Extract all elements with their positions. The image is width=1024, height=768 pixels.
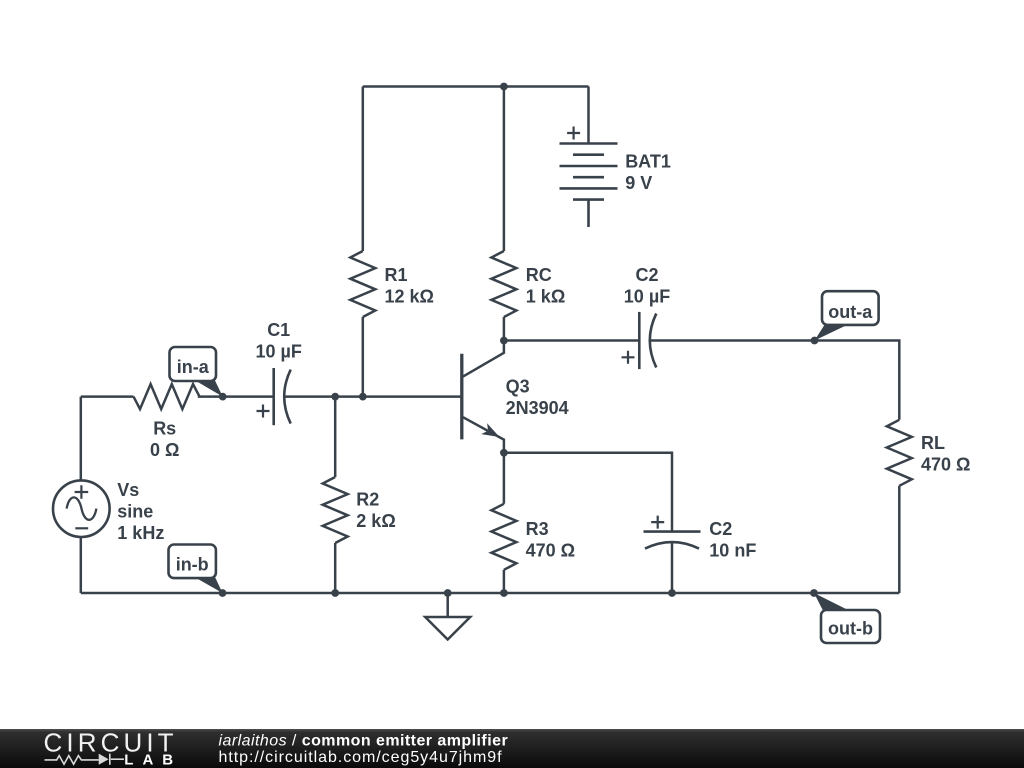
wire RC to collector node [503, 317, 506, 341]
wire collector node to C2 coupling cap [504, 339, 639, 342]
node flag in-b [169, 545, 216, 579]
svg-text:in-a: in-a [177, 357, 210, 377]
resistor R3 [491, 504, 516, 570]
wire Vs to Rs [81, 395, 134, 398]
node flag out-a [822, 291, 879, 325]
wire base node to R2 [334, 397, 337, 477]
node flag out-b [821, 610, 880, 643]
wire R2 to bottom rail [334, 543, 337, 593]
junction ground [444, 589, 452, 597]
CircuitLab logo diode triangle [99, 754, 109, 765]
wire R3 to bottom rail [503, 570, 506, 593]
node flag in-a tail [194, 380, 223, 397]
wire C2 to out-a and down to RL [650, 341, 899, 420]
voltage source Vs plus mark [75, 485, 89, 499]
svg-text:out-a: out-a [828, 302, 873, 322]
resistor Rs [134, 384, 200, 409]
wire Vs top lead [80, 397, 83, 481]
junction base node / R2 [331, 393, 339, 401]
junction out-a node [811, 337, 819, 345]
wire emitter node to R3 [503, 453, 506, 504]
wire battery positive lead [587, 87, 590, 144]
junction R2 bottom [331, 589, 339, 597]
junction out-b node [810, 589, 818, 597]
wire Rs to C1 [198, 395, 274, 398]
node flag in-a [170, 347, 217, 381]
capacitor C2 coupling plus polarity mark [622, 351, 635, 364]
junction in-b node [219, 589, 227, 597]
wire top rail to RC [503, 87, 506, 252]
wire bypass cap C2 to bottom rail [671, 543, 674, 594]
capacitor C1 [274, 368, 291, 425]
battery BAT1 [560, 144, 618, 228]
svg-text:LAB: LAB [124, 752, 182, 768]
node flag out-a tail [815, 323, 849, 341]
svg-text:out-b: out-b [828, 618, 873, 638]
resistor RC [491, 251, 516, 317]
capacitor C2 bypass plus polarity mark [651, 516, 664, 529]
transistor Q3 base bar [460, 354, 463, 440]
resistor R1 [350, 251, 375, 317]
junction C2 bypass bottom [668, 589, 676, 597]
wire RL to bottom rail [898, 486, 901, 593]
wire R1 to base node [362, 317, 365, 397]
capacitor C1 plus polarity mark [257, 405, 270, 418]
junction collector node [500, 337, 508, 345]
capacitor C2 coupling [639, 312, 656, 369]
node flag in-b tail [194, 576, 223, 593]
ground [425, 593, 470, 640]
svg-text:iarlaithos / common emitter am: iarlaithos / common emitter amplifier [219, 732, 509, 749]
wire emitter node to bypass cap C2 [504, 453, 672, 532]
node flag out-b tail [814, 593, 850, 613]
resistor RL [887, 420, 912, 486]
svg-text:in-b: in-b [176, 554, 209, 574]
transistor Q3 collector lead [463, 341, 504, 377]
battery BAT1 plus polarity mark [567, 127, 580, 140]
svg-text:Rs0 Ω: Rs0 Ω [150, 419, 179, 461]
wire Vs bottom lead [80, 537, 83, 593]
junction R3 bottom [500, 589, 508, 597]
transistor Q3 emitter arrow [481, 423, 499, 437]
transistor Q3 emitter lead [463, 417, 504, 453]
wire bottom rail [81, 592, 900, 595]
wire top rail [363, 85, 589, 88]
wire top rail to R1 [362, 87, 365, 252]
junction emitter node [500, 449, 508, 457]
resistor R2 [323, 477, 348, 543]
voltage source Vs sine wave [67, 497, 97, 519]
svg-text:http://circuitlab.com/ceg5y4u7: http://circuitlab.com/ceg5y4u7jhm9f [219, 749, 503, 766]
junction base node / R1 [359, 393, 367, 401]
voltage source Vs minus mark [75, 527, 88, 529]
voltage source Vs [53, 480, 110, 537]
CircuitLab logo resistor-diode squiggle [45, 754, 125, 765]
junction top rail / battery [500, 83, 508, 91]
wire C1 to base [285, 395, 461, 398]
capacitor C2 bypass (10 nF) [644, 532, 701, 549]
junction in-a node [219, 393, 227, 401]
